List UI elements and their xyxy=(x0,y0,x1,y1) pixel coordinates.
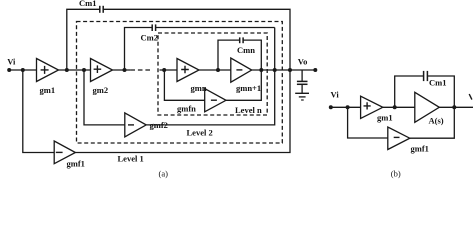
node: gmf1 tap (b) xyxy=(346,105,350,109)
svg-text:gmf1: gmf1 xyxy=(411,144,429,154)
node: Cm1 tap (b) xyxy=(393,105,397,109)
wire: output run xyxy=(252,69,316,71)
svg-text:gm1: gm1 xyxy=(40,85,56,95)
svg-text:Level n: Level n xyxy=(235,105,262,115)
node: output terminal xyxy=(313,68,317,72)
svg-text:gm2: gm2 xyxy=(93,85,109,95)
wire: gm1 to A(s) xyxy=(383,106,415,108)
svg-text:Vi: Vi xyxy=(331,90,340,100)
capacitor Cm2 loop xyxy=(125,28,153,71)
svg-text:gmn+1: gmn+1 xyxy=(236,83,261,93)
svg-text:(a): (a) xyxy=(159,169,169,179)
wire: Cm2 right drop xyxy=(274,28,276,71)
op-amp gmf1 (b) xyxy=(348,107,388,138)
wire: gm1 to gm2 xyxy=(59,69,91,71)
svg-text:gmfn: gmfn xyxy=(177,104,196,114)
wire: gmf1 output xyxy=(75,70,290,153)
wire: gmfn output xyxy=(226,70,261,100)
svg-text:Level 1: Level 1 xyxy=(118,154,144,164)
level 2 dashed box xyxy=(77,22,283,144)
svg-text:(b): (b) xyxy=(391,169,401,179)
ground xyxy=(295,92,309,94)
svg-text:Cm2: Cm2 xyxy=(141,33,158,43)
op-amp gmf1 feedforward xyxy=(23,70,54,153)
node: input terminal (b) xyxy=(329,105,333,109)
svg-text:Vi: Vi xyxy=(7,57,16,67)
capacitor CL load xyxy=(301,70,303,81)
node: Cmn/gmfn junction xyxy=(259,68,263,72)
wire: gmf1 output (b) xyxy=(410,107,455,138)
wire: output run (b) xyxy=(439,106,473,108)
svg-text:Cm1: Cm1 xyxy=(429,78,446,88)
svg-text:gm1: gm1 xyxy=(377,113,393,123)
node: Cm2 tap xyxy=(123,68,127,72)
capacitor Cm1 (b) xyxy=(395,76,424,107)
wire: gm2 output xyxy=(113,69,131,71)
node: Cm2/gmf2 junction xyxy=(273,68,277,72)
svg-text:Cmn: Cmn xyxy=(237,45,255,55)
level n dashed box xyxy=(158,33,267,115)
node: Vi terminal xyxy=(7,68,11,72)
svg-text:Level 2: Level 2 xyxy=(187,128,213,138)
op-amp gmn xyxy=(177,59,199,82)
node: Cmn tap xyxy=(216,68,220,72)
wire: into gmn xyxy=(160,69,178,71)
node: output junction (b) xyxy=(452,105,456,109)
svg-text:gmf1: gmf1 xyxy=(67,158,85,168)
node: gmf2 input tap xyxy=(82,68,86,72)
svg-text:Cm1: Cm1 xyxy=(79,0,96,8)
op-amp gm1 xyxy=(37,59,59,82)
op-amp gmn+1 xyxy=(231,58,252,82)
op-amp gm2 xyxy=(91,59,113,82)
wire: input run xyxy=(9,69,37,71)
op-amp A(s) xyxy=(415,92,440,122)
svg-text:Vo: Vo xyxy=(298,57,308,67)
wire: gmf2 output xyxy=(146,70,275,125)
node: Cm1 tap xyxy=(65,68,69,72)
op-amp gmf2 feedforward xyxy=(84,70,125,125)
op-amp gm1 (b) xyxy=(361,96,383,118)
capacitor Cmn loop xyxy=(218,40,240,70)
op-amp gmfn feedforward xyxy=(164,70,204,100)
node: gmf1 input tap xyxy=(21,68,25,72)
node: clipped Vo mark xyxy=(469,94,472,100)
wire: input run (b) xyxy=(331,106,361,108)
node: gmfn input tap xyxy=(162,68,166,72)
svg-text:A(s): A(s) xyxy=(429,116,444,126)
wire: dashed omitted stages xyxy=(130,69,150,71)
wire: gmn to gmn+1 xyxy=(199,69,231,71)
node: Cm1/gmf1 junction xyxy=(288,68,292,72)
capacitor Cm1 top loop xyxy=(67,9,100,70)
